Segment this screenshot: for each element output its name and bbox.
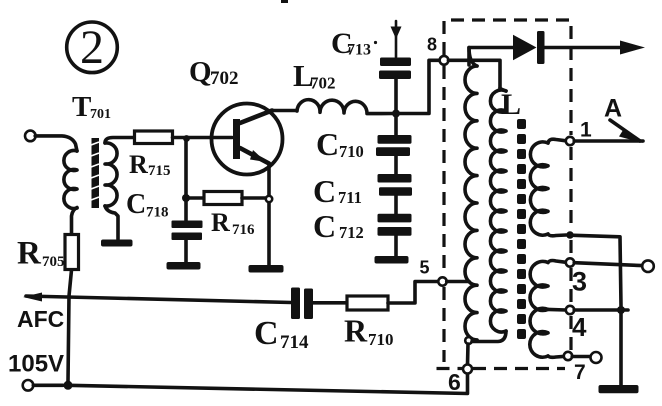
svg-text:4: 4 — [572, 312, 587, 342]
svg-text:702: 702 — [310, 74, 336, 93]
svg-text:713: 713 — [347, 42, 371, 59]
svg-text:3: 3 — [572, 267, 587, 297]
svg-text:C: C — [316, 126, 339, 162]
svg-text:710: 710 — [339, 142, 364, 161]
svg-text:R: R — [344, 313, 368, 349]
svg-text:718: 718 — [146, 205, 169, 221]
svg-text:5: 5 — [420, 258, 430, 278]
svg-text:R: R — [211, 208, 230, 237]
svg-text:C: C — [313, 173, 336, 209]
svg-text:7: 7 — [574, 361, 586, 384]
svg-text:C: C — [126, 189, 146, 220]
svg-text:T: T — [72, 91, 91, 123]
svg-text:L: L — [501, 88, 521, 121]
svg-text:C: C — [313, 208, 336, 244]
svg-text:A: A — [604, 95, 622, 123]
svg-text:R: R — [129, 150, 148, 179]
svg-text:702: 702 — [210, 68, 239, 89]
svg-text:6: 6 — [448, 369, 461, 395]
svg-text:712: 712 — [339, 223, 364, 242]
svg-text:8: 8 — [427, 35, 437, 55]
svg-text:716: 716 — [232, 222, 255, 238]
svg-text:AFC: AFC — [17, 306, 64, 332]
svg-text:R: R — [17, 236, 42, 272]
svg-text:705: 705 — [42, 254, 65, 270]
svg-text:710: 710 — [368, 330, 394, 349]
svg-text:715: 715 — [148, 163, 171, 179]
svg-text:C: C — [254, 315, 279, 352]
svg-text:Q: Q — [189, 56, 212, 88]
svg-text:714: 714 — [280, 332, 309, 353]
svg-text:711: 711 — [338, 188, 362, 207]
svg-text:2: 2 — [80, 21, 104, 74]
svg-text:1: 1 — [580, 119, 592, 142]
svg-text:105V: 105V — [8, 351, 64, 378]
svg-text:701: 701 — [90, 107, 111, 122]
